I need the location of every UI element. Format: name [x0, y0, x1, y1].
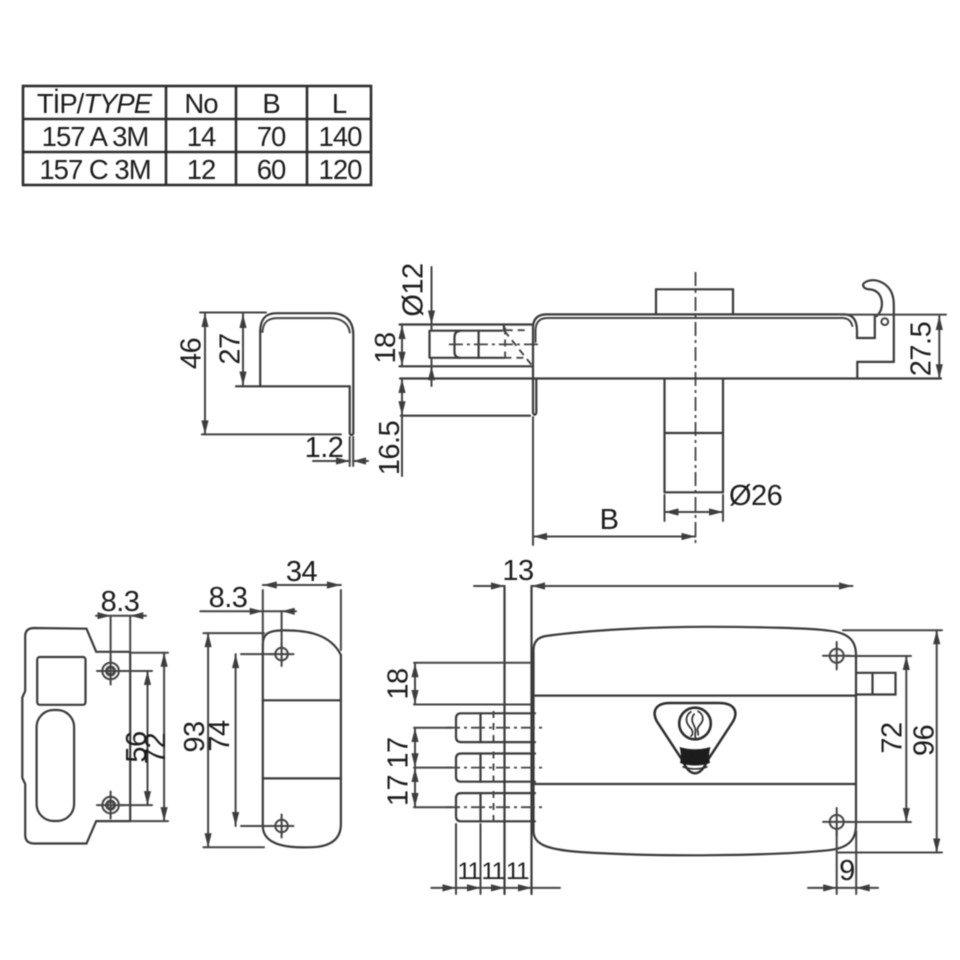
svg-text:Ø12: Ø12: [398, 263, 430, 316]
svg-text:13: 13: [502, 555, 533, 587]
svg-text:17: 17: [383, 737, 415, 768]
svg-text:72: 72: [877, 722, 909, 753]
svg-text:1.2: 1.2: [305, 432, 344, 464]
svg-text:11: 11: [458, 858, 481, 885]
svg-text:17: 17: [383, 775, 415, 806]
svg-text:46: 46: [176, 338, 208, 369]
svg-text:157 C 3M: 157 C 3M: [39, 154, 150, 185]
svg-text:TİP/TYPE: TİP/TYPE: [37, 88, 153, 119]
svg-text:157 A 3M: 157 A 3M: [42, 121, 149, 152]
svg-text:18: 18: [370, 332, 402, 363]
svg-text:14: 14: [187, 121, 216, 152]
svg-text:16.5: 16.5: [374, 421, 406, 475]
svg-text:8.3: 8.3: [209, 582, 248, 614]
svg-text:120: 120: [319, 154, 363, 185]
svg-text:27.5: 27.5: [906, 322, 938, 376]
svg-text:11: 11: [482, 858, 505, 885]
svg-text:70: 70: [257, 121, 286, 152]
svg-text:B: B: [262, 88, 279, 119]
svg-text:34: 34: [286, 556, 318, 588]
svg-text:27: 27: [215, 333, 247, 364]
svg-text:KALE: KALE: [681, 752, 710, 763]
svg-text:96: 96: [909, 725, 941, 756]
svg-text:74: 74: [204, 720, 236, 752]
svg-text:12: 12: [187, 154, 216, 185]
svg-text:11: 11: [506, 858, 529, 885]
svg-text:B: B: [600, 504, 619, 536]
svg-text:140: 140: [319, 121, 363, 152]
svg-text:8.3: 8.3: [101, 586, 140, 618]
svg-text:60: 60: [257, 154, 286, 185]
svg-text:No: No: [184, 88, 218, 119]
svg-text:18: 18: [383, 668, 415, 699]
svg-text:9: 9: [839, 855, 855, 887]
svg-text:72: 72: [140, 733, 172, 764]
svg-text:Ø26: Ø26: [729, 480, 782, 512]
svg-text:L: L: [332, 88, 347, 119]
